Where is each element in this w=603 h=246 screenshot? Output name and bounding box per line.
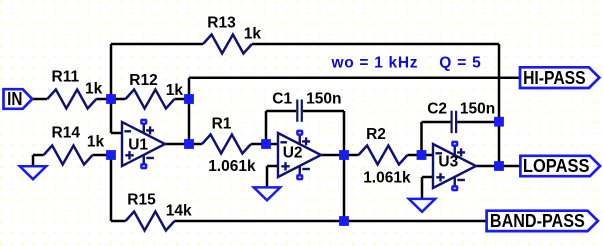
svg-text:1k: 1k xyxy=(87,133,105,150)
svg-text:R15: R15 xyxy=(127,191,156,208)
svg-text:R13: R13 xyxy=(207,15,236,32)
svg-text:150n: 150n xyxy=(460,101,495,118)
svg-text:C1: C1 xyxy=(272,91,292,108)
svg-text:U2: U2 xyxy=(283,145,303,162)
svg-text:1k: 1k xyxy=(85,80,103,97)
svg-text:150n: 150n xyxy=(306,91,341,108)
svg-text:C2: C2 xyxy=(427,101,447,118)
svg-text:U3: U3 xyxy=(438,153,458,170)
svg-text:1.061k: 1.061k xyxy=(363,170,411,187)
svg-text:1k: 1k xyxy=(244,26,262,43)
svg-text:1k: 1k xyxy=(166,82,184,99)
svg-text:Q = 5: Q = 5 xyxy=(439,54,481,71)
svg-text:14k: 14k xyxy=(166,203,192,220)
svg-text:HI-PASS: HI-PASS xyxy=(523,67,586,88)
svg-text:R14: R14 xyxy=(52,125,81,142)
svg-text:1.061k: 1.061k xyxy=(208,158,256,175)
svg-text:IN: IN xyxy=(7,88,22,109)
svg-text:R11: R11 xyxy=(52,69,80,86)
svg-text:LOPASS: LOPASS xyxy=(523,155,590,176)
svg-text:R1: R1 xyxy=(212,116,232,133)
svg-text:BAND-PASS: BAND-PASS xyxy=(490,210,585,231)
svg-text:R2: R2 xyxy=(366,126,386,143)
svg-text:wo = 1 kHz: wo = 1 kHz xyxy=(331,54,418,71)
svg-text:R12: R12 xyxy=(129,72,157,89)
svg-text:U1: U1 xyxy=(128,137,148,154)
